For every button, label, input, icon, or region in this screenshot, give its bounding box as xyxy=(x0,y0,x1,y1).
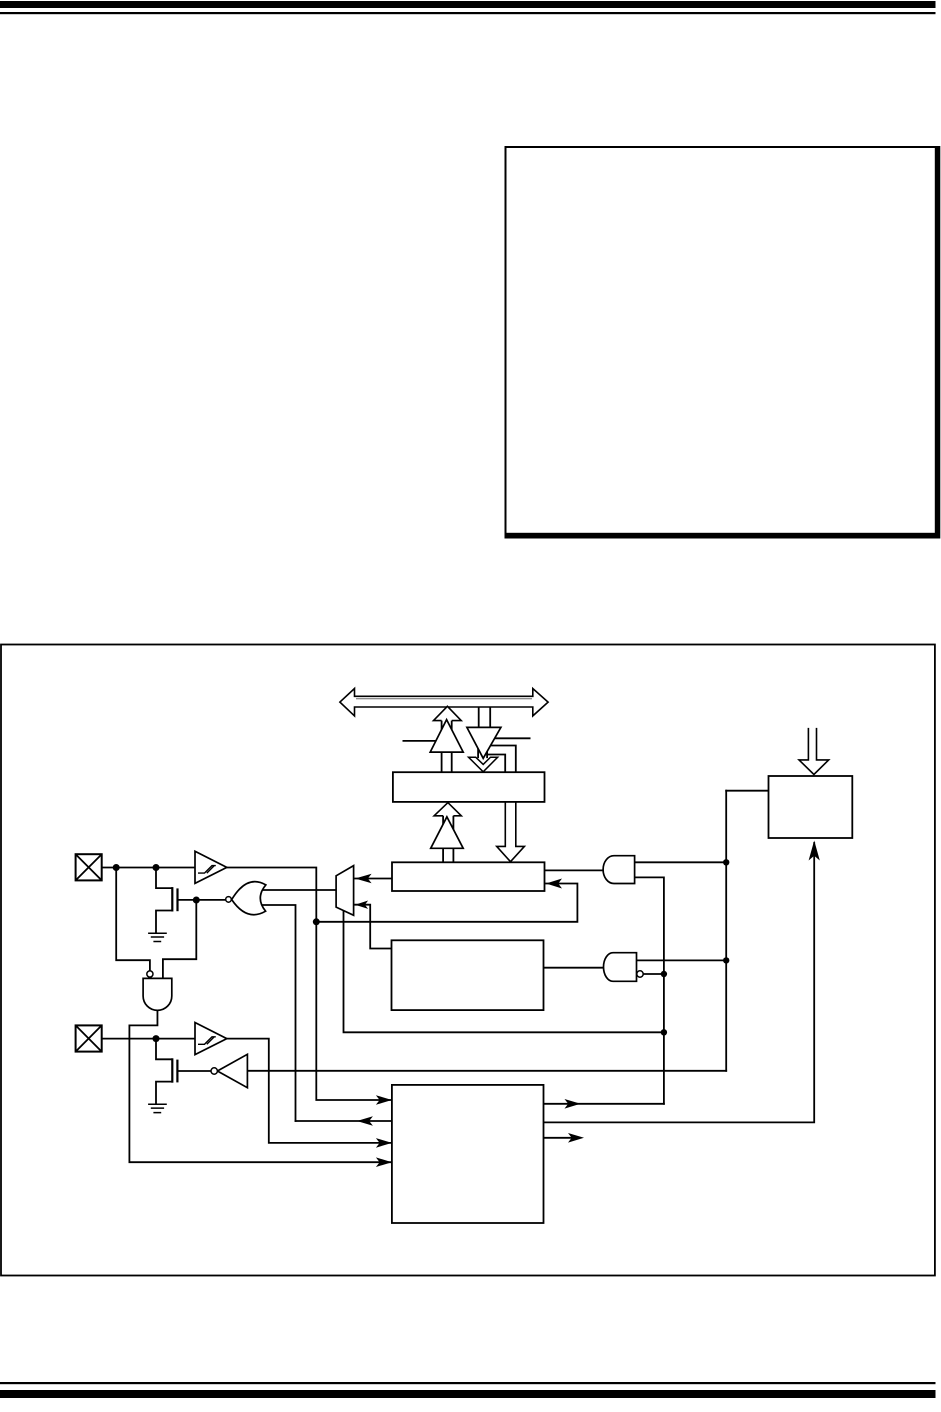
fet2 gate bar xyxy=(176,1060,178,1083)
wire nor input 1 to mux xyxy=(261,889,336,891)
schmitt trigger 1 xyxy=(195,851,227,883)
wire schmitt1 output to vertical xyxy=(227,868,392,1101)
footer thick rule xyxy=(0,1390,936,1398)
arrowhead into mux B xyxy=(355,901,368,909)
wire read enable line xyxy=(403,740,437,742)
and gate U1 pointing left xyxy=(603,856,634,884)
wire and2 upper line xyxy=(630,959,726,961)
wire inverter input long run xyxy=(247,1070,726,1072)
wire status box to right box xyxy=(544,843,815,1122)
and gate U2 output bubble xyxy=(637,971,643,977)
wire fet2 source to ground xyxy=(156,1082,172,1105)
junction dot pin1 a xyxy=(113,864,120,871)
wire mux select down to and2 net xyxy=(344,911,664,1033)
wire fet1 source to ground xyxy=(156,911,172,934)
wire status box left output xyxy=(296,1120,392,1122)
wire fet2 gate lead from inverter xyxy=(177,1070,211,1072)
internal data bus double arrow xyxy=(340,689,548,716)
inverter pointing left xyxy=(217,1054,247,1087)
wire schmitt2 output to status box xyxy=(227,1039,392,1143)
pin pad 1 xyxy=(76,854,102,880)
wire and1 lower branch xyxy=(629,877,664,1103)
pin pad 2 cross xyxy=(76,1025,102,1051)
note box (shadowed) xyxy=(505,146,941,539)
wire read shaft upper xyxy=(442,721,452,773)
arrowhead into status 1 xyxy=(376,1095,392,1105)
wire pin2 to schmitt buffer 2 xyxy=(102,1038,195,1040)
write buffer triangle xyxy=(467,727,501,758)
junction dot and2 out xyxy=(661,971,667,977)
junction dot mux select xyxy=(661,1029,667,1035)
SSPADD register box right xyxy=(769,776,853,838)
wire pin1 to schmitt buffer xyxy=(102,867,195,869)
wire ckp net vertical xyxy=(725,791,727,1071)
wire ckp net to right box xyxy=(726,790,768,792)
arrowhead up into right box xyxy=(809,841,820,861)
wire write shaft to chevron xyxy=(478,748,487,758)
wire node read-port branch to shift reg xyxy=(316,884,577,922)
wire write enable line xyxy=(494,737,530,739)
write hollow arrow SSPBUF to SSPSR xyxy=(497,802,525,862)
read hollow arrowhead into bus xyxy=(434,706,462,720)
SSPBUF register box xyxy=(393,772,545,802)
wire and1 input from shift reg xyxy=(545,869,606,871)
schmitt trigger 2 xyxy=(195,1023,227,1055)
arrowhead into shift reg xyxy=(546,879,562,889)
junction dot and2 upper xyxy=(723,957,729,963)
pin pad 2 xyxy=(76,1025,102,1051)
nor gate pointing left xyxy=(232,882,266,915)
arrowhead into status 3 xyxy=(376,1157,392,1167)
hollow down arrow above right box xyxy=(799,728,829,775)
wire nand input A below bubble xyxy=(149,977,151,979)
footer thin rule xyxy=(0,1382,936,1384)
junction dot and1 out xyxy=(723,859,729,865)
wire write control L2 xyxy=(487,755,505,773)
nand gate pointing down xyxy=(143,978,172,1010)
schmitt2 hysteresis glyph xyxy=(198,1037,216,1045)
wire read shaft mid xyxy=(443,816,453,863)
figure frame xyxy=(1,645,935,1276)
wire fet2 drain xyxy=(156,1039,172,1060)
wire status box right output 1 xyxy=(544,1103,664,1105)
ground symbol 2 xyxy=(148,1104,167,1112)
junction dot pin2 xyxy=(153,1035,160,1042)
arrowhead into mux A xyxy=(355,874,372,884)
wire and1 output xyxy=(629,861,726,863)
wire pin1 branch to nand input A xyxy=(116,868,150,971)
wire and2 input from match box xyxy=(544,967,609,969)
arrowhead status right out 1 xyxy=(565,1099,581,1109)
read buffer triangle upper xyxy=(430,720,463,753)
wire status box stub output xyxy=(544,1137,579,1139)
fet1 channel bar xyxy=(171,887,173,911)
write chevron arrowhead into SSPBUF xyxy=(469,757,498,772)
wire and2 bubble output xyxy=(637,973,664,975)
read hollow arrowhead mid xyxy=(434,803,461,816)
match detect box xyxy=(392,940,544,1010)
arrowhead status out left xyxy=(357,1116,373,1126)
junction dot read branch xyxy=(313,918,320,925)
and gate U2 pointing left xyxy=(604,953,637,982)
start/stop detect box xyxy=(392,1085,544,1223)
SSPSR shift register box xyxy=(392,862,545,891)
nor gate output bubble xyxy=(226,897,232,903)
header thin rule xyxy=(0,12,936,14)
wire write control L1 xyxy=(490,746,516,773)
ground symbol 1 xyxy=(148,933,167,941)
junction dot pin1 b xyxy=(153,864,160,871)
wire fet1 gate lead from nor output xyxy=(178,899,227,901)
junction dot gate net xyxy=(193,897,200,904)
wire nand output to status box xyxy=(129,1010,392,1162)
arrowhead status stub out xyxy=(568,1133,584,1143)
wire shift reg to mux input A xyxy=(355,878,392,880)
schmitt1 hysteresis glyph xyxy=(198,866,216,874)
inverter bubble xyxy=(211,1068,217,1074)
read buffer triangle lower xyxy=(431,817,464,849)
bus inner line xyxy=(356,698,532,700)
wire fet1 drain xyxy=(156,868,172,889)
pin pad 1 cross xyxy=(76,854,102,880)
wire nor input 2 down to status box xyxy=(261,905,296,1121)
header thick rule xyxy=(0,1,936,8)
arrowhead into status 2 xyxy=(376,1138,392,1148)
mux trapezoid xyxy=(336,866,354,916)
fet1 gate bar xyxy=(176,888,178,911)
wire write shaft from bus xyxy=(479,707,491,728)
wire nor-output net to nand input B xyxy=(163,900,196,979)
wire match box to mux input B xyxy=(355,905,391,949)
fet2 channel bar xyxy=(171,1058,173,1082)
nand gate input bubble xyxy=(147,971,153,977)
